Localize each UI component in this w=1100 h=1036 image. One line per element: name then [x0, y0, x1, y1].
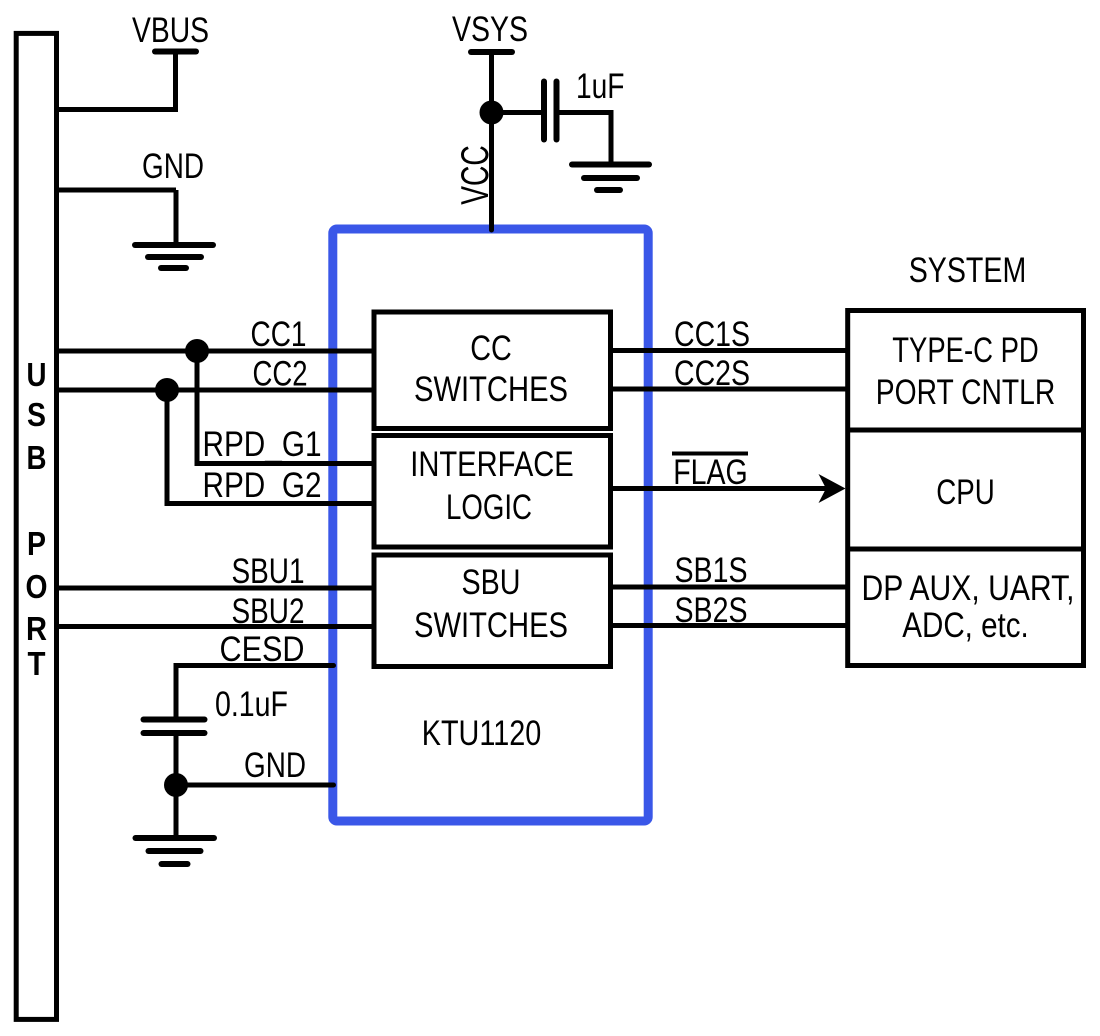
- svg-text:SB1S: SB1S: [675, 551, 748, 590]
- svg-text:0.1uF: 0.1uF: [215, 685, 288, 724]
- wire CC2: [57, 388, 375, 393]
- svg-text:B: B: [27, 439, 47, 476]
- svg-text:CC2S: CC2S: [674, 354, 750, 393]
- svg-text:PORT CNTLR: PORT CNTLR: [876, 373, 1056, 412]
- svg-text:SBU: SBU: [462, 563, 521, 602]
- wire CC2S: [611, 387, 849, 392]
- svg-text:SWITCHES: SWITCHES: [414, 606, 568, 645]
- block INTERFACE LOGIC: [374, 436, 611, 548]
- svg-text:INTERFACE: INTERFACE: [410, 445, 574, 484]
- wire CC2 to RPD_G2: [167, 390, 374, 504]
- VBUS rail bar: [155, 49, 196, 55]
- ground (top): [135, 245, 213, 268]
- svg-text:ADC, etc.: ADC, etc.: [902, 606, 1029, 645]
- svg-text:RPD_G1: RPD_G1: [203, 425, 322, 464]
- svg-text:S: S: [27, 396, 46, 433]
- svg-text:CC2: CC2: [253, 355, 308, 394]
- arrowhead FLAG: [819, 474, 846, 503]
- ground (1uF): [572, 165, 649, 191]
- svg-text:CPU: CPU: [936, 473, 995, 512]
- svg-text:CC1: CC1: [251, 315, 307, 354]
- svg-text:SWITCHES: SWITCHES: [414, 370, 568, 409]
- FLAG overline: [672, 452, 748, 456]
- svg-text:FLAG: FLAG: [673, 453, 748, 492]
- svg-text:GND: GND: [244, 746, 306, 785]
- svg-text:P: P: [27, 525, 46, 562]
- USB PORT connector box: [16, 33, 56, 1019]
- svg-text:LOGIC: LOGIC: [446, 488, 532, 527]
- wire GND vertical: [174, 190, 179, 243]
- wire junction to ground: [174, 785, 179, 837]
- wire junction to capacitor: [492, 110, 542, 115]
- svg-text:VSYS: VSYS: [452, 10, 528, 49]
- node junction GND: [164, 773, 188, 797]
- svg-text:SBU1: SBU1: [232, 552, 305, 591]
- svg-text:GND: GND: [142, 147, 204, 186]
- svg-text:SB2S: SB2S: [675, 591, 748, 630]
- node junction VSYS: [480, 101, 504, 125]
- capacitor C1 1uF plates: [541, 82, 547, 140]
- divider 2: [848, 547, 1084, 552]
- svg-text:CC: CC: [470, 329, 512, 368]
- node junction on CC1: [185, 339, 209, 363]
- svg-text:SBU2: SBU2: [232, 592, 305, 631]
- svg-text:T: T: [28, 645, 46, 682]
- wire CC1 to RPD_G1: [197, 351, 374, 464]
- svg-text:U: U: [27, 356, 47, 393]
- svg-text:CC1S: CC1S: [674, 315, 750, 354]
- svg-text:CESD: CESD: [220, 630, 305, 669]
- svg-text:VBUS: VBUS: [132, 11, 209, 50]
- block CC SWITCHES: [374, 312, 611, 429]
- wire SBU1: [57, 586, 375, 591]
- svg-text:DP AUX, UART,: DP AUX, UART,: [862, 569, 1075, 608]
- svg-text:R: R: [26, 610, 47, 647]
- wire VBUS vertical: [173, 52, 178, 110]
- wire CESD: [176, 666, 334, 720]
- wire FLAG with arrow: [611, 486, 833, 491]
- wire GND horizontal: [57, 188, 177, 193]
- wire SB2S: [611, 623, 849, 628]
- wire SBU2: [57, 624, 375, 629]
- block SBU SWITCHES: [374, 555, 611, 667]
- wire SB1S: [611, 585, 849, 590]
- svg-text:SYSTEM: SYSTEM: [909, 251, 1027, 290]
- wire VSYS vertical to chip VCC: [489, 52, 494, 230]
- KTU1120 chip outline (blue): [333, 229, 648, 821]
- svg-text:1uF: 1uF: [576, 67, 625, 106]
- wire capacitor to ground: [557, 113, 612, 165]
- wire GND pin horizontal: [176, 783, 334, 788]
- divider 1: [848, 428, 1084, 433]
- wire CC1: [57, 349, 375, 354]
- svg-text:TYPE-C PD: TYPE-C PD: [892, 331, 1039, 370]
- svg-text:O: O: [26, 568, 48, 605]
- svg-text:KTU1120: KTU1120: [422, 714, 542, 753]
- SYSTEM box: [848, 311, 1084, 666]
- wire VBUS horizontal: [57, 107, 179, 112]
- node junction on CC2: [155, 378, 179, 402]
- wire CC1S: [611, 348, 849, 353]
- capacitor C2 0.1uF plates: [144, 717, 205, 723]
- ground (bottom): [136, 838, 215, 864]
- svg-text:RPD_G2: RPD_G2: [203, 466, 322, 505]
- wire cap to GND pin: [174, 733, 179, 789]
- VSYS rail bar: [471, 49, 512, 55]
